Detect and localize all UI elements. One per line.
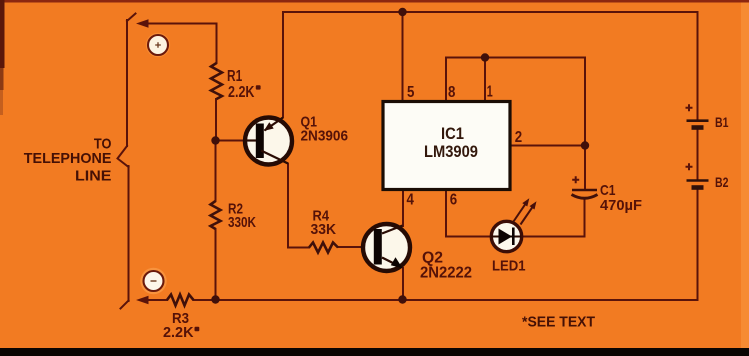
svg-text:6: 6	[450, 192, 458, 209]
resistor R2	[211, 201, 221, 229]
polarity circle + (top)	[146, 33, 170, 57]
label C1 value	[600, 182, 642, 214]
resistor R4	[309, 243, 338, 253]
label Q2 2N2222	[420, 250, 472, 282]
wire IC pin 6 to LED	[446, 190, 491, 237]
node dot pin5/top rail	[398, 8, 406, 16]
label Q1 2N3906	[301, 114, 349, 145]
node dot Q1 base	[211, 136, 219, 144]
wire between B2 and B1	[697, 128, 699, 181]
LED light arrows	[514, 203, 526, 221]
wire Q1 collector down to R4	[261, 151, 309, 248]
svg-text:LED1: LED1	[492, 258, 526, 275]
wire LED to C1 bottom	[522, 199, 585, 237]
wire Q1 emitter vertical	[265, 12, 284, 131]
wire IC pin 8	[446, 58, 585, 102]
label R3 value	[163, 310, 199, 341]
battery B2	[686, 163, 709, 187]
wire Q1 base	[217, 140, 256, 142]
svg-text:2N3906: 2N3906	[301, 128, 349, 145]
transistor Q2 2N2222	[363, 224, 410, 271]
node brace point TO TELEPHONE LINE	[118, 146, 129, 167]
wire IC pin 2	[510, 145, 585, 147]
node dot pin2 junction	[581, 141, 589, 149]
wire top rail	[284, 11, 698, 13]
wire telephone-line top tick	[127, 14, 136, 22]
label R4 value	[311, 209, 337, 239]
wire IC pin 4	[402, 190, 404, 227]
wire IC pin 5	[402, 12, 404, 102]
capacitor C1	[572, 176, 598, 198]
svg-text:2N2222: 2N2222	[420, 265, 472, 282]
wire telephone-line bottom tick	[121, 301, 129, 309]
svg-text:IC1: IC1	[441, 124, 464, 143]
arrow to telephone line (bottom)	[136, 296, 149, 305]
svg-text:TELEPHONE: TELEPHONE	[24, 150, 112, 167]
svg-text:*SEE TEXT: *SEE TEXT	[522, 314, 595, 331]
svg-text:2.2K: 2.2K	[228, 84, 255, 101]
LED1	[491, 198, 537, 252]
node dot pin1 junction	[481, 53, 489, 61]
svg-text:LM3909: LM3909	[424, 142, 478, 161]
IC U1 LM3909 box	[383, 102, 510, 190]
wire R2 bottom lead	[215, 229, 217, 300]
label R2 value	[228, 201, 256, 232]
label TO TELEPHONE LINE	[24, 135, 112, 184]
wire R2 top lead	[215, 141, 217, 202]
svg-text:4: 4	[407, 192, 415, 209]
wire R1 bottom lead to node	[215, 99, 217, 141]
battery B1	[686, 104, 709, 127]
wire telephone-line vertical (bottom section)	[128, 166, 130, 301]
label R1 value	[227, 68, 261, 101]
wire bottom rail	[194, 189, 698, 301]
svg-text:470µF: 470µF	[600, 197, 642, 214]
svg-text:B1: B1	[715, 114, 729, 130]
svg-text:33K: 33K	[311, 222, 337, 238]
wire Q2 emitter to bottom rail	[402, 268, 404, 300]
wire telephone-line vertical (top section)	[126, 20, 128, 146]
wire bottom rail left of R3	[147, 299, 167, 301]
wire top-left from R1 to arrow	[147, 24, 217, 64]
polarity circle - (bottom)	[140, 268, 166, 294]
resistor R3	[167, 295, 194, 306]
wire R4 right lead to Q2 base	[338, 246, 375, 248]
arrow to telephone line (top)	[136, 19, 149, 28]
svg-text:5: 5	[407, 84, 415, 101]
svg-text:2: 2	[515, 129, 522, 146]
wire B1 top to top rail	[697, 12, 699, 121]
svg-text:330K: 330K	[228, 214, 256, 231]
svg-text:1: 1	[487, 84, 493, 101]
wire IC pin 1	[484, 58, 486, 102]
svg-text:8: 8	[448, 84, 456, 101]
svg-text:2.2K: 2.2K	[163, 324, 194, 341]
node dot bottom rail R2	[211, 295, 219, 303]
transistor Q1 2N3906	[245, 118, 292, 165]
node dot bottom rail Q2	[398, 295, 406, 303]
wire pin2 net vertical to C1	[584, 58, 586, 190]
svg-text:R1: R1	[227, 68, 242, 85]
svg-text:B2: B2	[715, 174, 729, 190]
svg-text:LINE: LINE	[75, 168, 111, 185]
resistor R1	[211, 63, 222, 99]
